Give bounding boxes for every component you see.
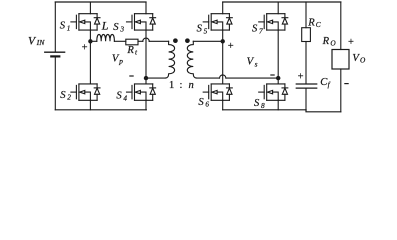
wire secondary top	[193, 40, 222, 42]
wire leg S3/S4	[145, 2, 147, 110]
svg-text:f: f	[328, 80, 331, 89]
label minus Vp	[129, 75, 133, 77]
wire primary winding bottom return	[146, 77, 166, 79]
svg-text:4: 4	[123, 93, 127, 102]
transformer dot secondary	[185, 38, 190, 43]
wire RO bottom	[340, 69, 342, 112]
wire hop to primary winding	[149, 40, 168, 42]
capacitor Cf plate bottom	[296, 87, 316, 89]
svg-text:S: S	[60, 21, 66, 32]
svg-text:1: 1	[169, 80, 174, 91]
svg-text:O: O	[330, 39, 336, 48]
svg-text:L: L	[101, 18, 109, 32]
wire leg S7/S8	[277, 2, 279, 110]
label minus VO	[344, 83, 348, 85]
transistor S6	[203, 84, 232, 100]
svg-text:p: p	[118, 56, 123, 65]
transistor S4	[127, 84, 156, 100]
capacitor Cf plate top	[296, 83, 316, 85]
battery VIN plate long	[45, 51, 65, 53]
svg-text:7: 7	[259, 26, 263, 35]
svg-text:S: S	[252, 24, 258, 35]
wire top rail primary	[55, 1, 146, 3]
transformer secondary winding	[187, 41, 196, 78]
battery VIN lead top	[54, 2, 56, 52]
transistor S1	[71, 14, 100, 30]
wire secondary bottom to hop	[196, 77, 219, 79]
svg-text:S: S	[116, 91, 122, 102]
svg-text:R: R	[307, 17, 315, 28]
svg-text:8: 8	[261, 101, 265, 110]
label minus Vs	[270, 74, 274, 76]
svg-text::: :	[180, 80, 183, 91]
battery VIN plate short	[51, 55, 59, 57]
svg-text:+: +	[82, 42, 88, 53]
inductor L	[97, 34, 115, 41]
wire RC leg top	[305, 2, 307, 28]
wire top rail secondary	[223, 1, 341, 3]
svg-text:C: C	[316, 20, 321, 29]
wire RC to Cf	[305, 42, 307, 84]
svg-text:R: R	[322, 36, 330, 47]
wire RO leg top	[340, 2, 342, 50]
svg-text:O: O	[360, 56, 366, 65]
transistor S5	[203, 14, 232, 30]
svg-text:V: V	[247, 57, 255, 68]
node secondary leg	[276, 76, 280, 80]
wire leg S1/S2	[89, 2, 91, 110]
svg-text:t: t	[135, 47, 138, 56]
svg-text:S: S	[197, 24, 203, 35]
wire leg S5/S6	[222, 2, 224, 110]
transformer primary winding	[166, 41, 175, 78]
transistor S3	[127, 14, 156, 30]
wire hop to node S7/S8	[226, 77, 278, 79]
node secondary plus	[221, 39, 225, 43]
svg-text:3: 3	[119, 24, 124, 33]
wire primary node to inductor	[90, 40, 96, 42]
transformer dot primary	[173, 38, 178, 43]
node primary plus	[88, 39, 92, 43]
svg-text:1: 1	[67, 24, 71, 33]
transistor S8	[259, 84, 288, 100]
wire Cf bottom	[305, 89, 307, 110]
svg-text:5: 5	[204, 26, 208, 35]
svg-text:S: S	[198, 97, 204, 108]
resistor RC	[302, 28, 311, 42]
node primary leg	[144, 76, 148, 80]
wire bottom output	[306, 110, 341, 112]
svg-text:+: +	[228, 41, 234, 52]
svg-text:n: n	[189, 80, 194, 91]
wire bottom rail primary	[55, 109, 146, 111]
svg-text:R: R	[126, 45, 134, 56]
transistor S7	[259, 14, 288, 30]
wire Rt to hop	[138, 40, 143, 42]
svg-text:s: s	[255, 59, 258, 68]
wire inductor to Rt	[114, 40, 125, 42]
svg-text:IN: IN	[36, 38, 46, 47]
transistor S2	[71, 84, 100, 100]
svg-text:6: 6	[205, 100, 209, 109]
svg-text:S: S	[60, 90, 66, 101]
svg-text:2: 2	[67, 93, 71, 102]
svg-text:+: +	[348, 37, 354, 48]
wire hop over leg S3/S4	[143, 38, 149, 41]
wire bottom rail secondary	[223, 109, 306, 111]
battery VIN lead bottom	[54, 58, 56, 110]
svg-text:S: S	[113, 22, 119, 33]
svg-text:S: S	[254, 98, 260, 109]
wire hop over leg S5/S6	[220, 75, 226, 78]
svg-text:+: +	[298, 71, 304, 82]
resistor Rt	[126, 39, 138, 45]
resistor RO	[332, 50, 349, 70]
